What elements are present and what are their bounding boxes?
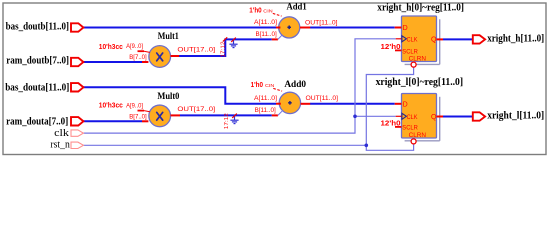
svg-text:Add1: Add1: [287, 2, 307, 12]
input port bas_doutb[11..0]: [71, 23, 83, 31]
svg-text:10'h3cc: 10'h3cc: [99, 42, 123, 51]
svg-text:xright_h[11..0]: xright_h[11..0]: [487, 33, 544, 44]
svg-text:OUT[17..0]: OUT[17..0]: [177, 47, 215, 54]
svg-text:B[11..0]: B[11..0]: [256, 31, 277, 38]
svg-text:1'h0: 1'h0: [251, 82, 263, 89]
adder Add0: [279, 92, 300, 113]
wire bas_douta to Add0 A: [82, 87, 276, 103]
svg-text:OUT[17..0]: OUT[17..0]: [177, 106, 215, 113]
input port ram_doutb[7..0]: [71, 58, 83, 66]
wire rst_n down branch to reg0 CLRN: [366, 144, 413, 150]
svg-text:CIN: CIN: [263, 8, 273, 14]
svg-text:10'h3cc: 10'h3cc: [99, 101, 123, 110]
multiplier Mult1: [149, 46, 171, 68]
wire rst_n up branch to reg1 CLRN: [366, 67, 413, 145]
svg-text:ram_doutb[7..0]: ram_doutb[7..0]: [6, 56, 69, 67]
svg-text:xright_h[0]~reg[11..0]: xright_h[0]~reg[11..0]: [377, 3, 464, 14]
wire bas_doutb to Add1 A: [84, 27, 277, 29]
svg-text:D: D: [403, 25, 408, 32]
svg-text:Q: Q: [431, 37, 437, 44]
wire Add1 OUT to reg1 D: [310, 27, 395, 29]
svg-text:1'h0: 1'h0: [249, 7, 261, 14]
schematic frame border: [3, 3, 546, 155]
svg-text:SCLR: SCLR: [402, 125, 418, 132]
svg-text:B[7..0]: B[7..0]: [129, 54, 147, 61]
svg-text:Add0: Add0: [284, 80, 306, 90]
wire reg1 Q to xright_h port: [443, 38, 473, 40]
svg-text:A[11..0]: A[11..0]: [254, 95, 277, 102]
svg-text:Mult0: Mult0: [157, 92, 179, 102]
wire clk net: [84, 39, 396, 133]
svg-text:CLK: CLK: [407, 36, 418, 43]
wire clk branch to reg0 CLK: [355, 115, 396, 117]
svg-text:CLK: CLK: [407, 114, 418, 121]
svg-text:Mult1: Mult1: [158, 32, 179, 42]
svg-text:A[11..0]: A[11..0]: [254, 19, 277, 26]
input port rst_n: [71, 142, 83, 148]
wire ram_doutb to Mult1 B: [84, 61, 143, 63]
reg1 pin CLK: [396, 38, 402, 40]
svg-text:CLRN: CLRN: [409, 132, 426, 139]
svg-text:B[7..0]: B[7..0]: [129, 113, 147, 120]
svg-text:Q: Q: [431, 114, 437, 121]
ground (unused bits Add1): [229, 39, 237, 47]
svg-text:D: D: [403, 101, 408, 108]
wire Mult0 OUT to Add0 B: [180, 114, 272, 116]
wire Add0 OUT to reg0 D: [310, 103, 395, 105]
svg-text:CLRN: CLRN: [409, 56, 426, 63]
svg-text:xright_l[11..0]: xright_l[11..0]: [487, 110, 544, 121]
wire rst_n net: [84, 144, 367, 146]
svg-text:A[9..0]: A[9..0]: [126, 103, 143, 110]
svg-text:xright_l[0]~reg[11..0]: xright_l[0]~reg[11..0]: [376, 77, 464, 88]
wire ram_douta to Mult0 B: [84, 120, 143, 122]
svg-text:B[11..0]: B[11..0]: [255, 107, 276, 114]
reg1 pin D: [395, 27, 402, 29]
wire reg0 Q to xright_l port: [443, 116, 473, 118]
svg-text:17:12: 17:12: [220, 41, 226, 57]
svg-text:OUT[11..0]: OUT[11..0]: [305, 19, 338, 26]
input port clk: [71, 130, 83, 136]
node rst_n junction: [365, 144, 369, 148]
multiplier Mult0: [149, 105, 171, 127]
svg-text:bas_doutb[11..0]: bas_doutb[11..0]: [6, 21, 69, 32]
output port xright_l[11..0]: [473, 112, 485, 120]
svg-text:rst_n: rst_n: [50, 140, 70, 151]
svg-text:OUT[11..0]: OUT[11..0]: [306, 95, 339, 102]
input port bas_douta[11..0]: [71, 83, 83, 91]
wire Mult1 OUT to Add1 B: [179, 39, 272, 56]
ground (unused bits Add0): [230, 115, 238, 123]
adder Add1: [279, 17, 300, 38]
input port ram_douta[7..0]: [71, 117, 83, 125]
svg-text:bas_douta[11..0]: bas_douta[11..0]: [5, 82, 69, 93]
reg0 pin D: [395, 103, 402, 105]
svg-text:A[9..0]: A[9..0]: [126, 43, 143, 50]
svg-text:clk: clk: [54, 127, 69, 139]
output port xright_h[11..0]: [473, 35, 485, 43]
reg0 pin CLK: [396, 115, 402, 117]
svg-text:17:12: 17:12: [224, 113, 230, 129]
svg-text:SCLR: SCLR: [402, 48, 418, 55]
node clk junction: [353, 115, 357, 119]
